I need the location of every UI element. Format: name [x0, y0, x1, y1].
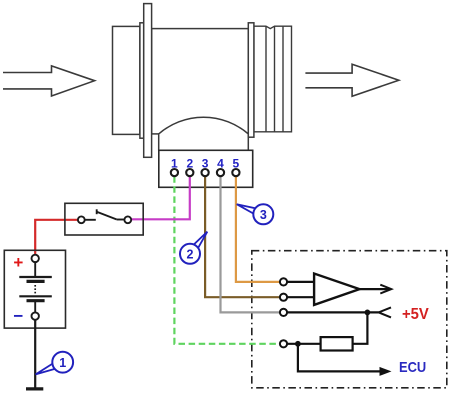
wire junction to ECU output — [298, 344, 388, 372]
pin label 3 — [202, 157, 209, 171]
pin label 2 — [186, 157, 193, 171]
wire resistor to T4 — [287, 343, 321, 345]
svg-text:+: + — [13, 253, 23, 272]
wire pin3 brown to ECU — [205, 176, 280, 297]
svg-text:1: 1 — [59, 356, 66, 370]
callout 1 pointer — [36, 364, 55, 375]
pin label 5 — [233, 157, 240, 171]
battery dotted link — [34, 285, 36, 294]
battery positive terminal — [32, 255, 39, 262]
+5V arrowhead — [379, 307, 391, 317]
airflow arrow right — [305, 64, 398, 96]
ECU terminal T4 — [280, 340, 287, 347]
connector pin 5 — [232, 169, 239, 176]
wire junction to resistor — [353, 312, 368, 343]
resistor R1 — [321, 337, 353, 350]
svg-text:−: − — [13, 307, 23, 326]
switch blade — [97, 209, 125, 219]
battery negative terminal — [32, 312, 39, 319]
ECU terminal T2 — [280, 294, 287, 301]
battery cell plate short 2 — [27, 299, 45, 302]
MAF sensor tall flange — [144, 4, 152, 158]
callout 3 circle — [253, 204, 273, 224]
airflow arrow left — [3, 66, 95, 96]
battery box — [4, 250, 65, 328]
MAF sensor ribbed tail section — [254, 26, 292, 132]
svg-text:3: 3 — [260, 208, 267, 222]
switch fixed lead — [85, 219, 96, 221]
ECU box dashed border — [252, 251, 447, 388]
wire pin2 magenta to switch — [131, 176, 189, 219]
MAF sensor left tube — [113, 26, 140, 134]
switch right contact — [124, 216, 131, 223]
svg-text:2: 2 — [187, 248, 194, 262]
MAF sensor right flange — [248, 23, 254, 137]
wire pin4 grey to ECU — [221, 176, 280, 312]
op-amp output arrowhead — [380, 285, 391, 294]
ECU terminal T3 — [280, 309, 287, 316]
wire pin1 green dashed to ECU — [174, 176, 280, 344]
MAF sensor main body — [152, 29, 249, 134]
node junction on T4 line — [295, 341, 301, 347]
node junction on +5V line — [365, 310, 371, 316]
callout 2 circle — [180, 244, 200, 264]
battery plus sign — [13, 253, 23, 272]
connector pin 4 — [217, 169, 224, 176]
wire T2 to op-amp — [287, 296, 314, 298]
connector pin 2 — [186, 169, 193, 176]
battery cell plate short 1 — [27, 280, 45, 283]
battery cell plate long 2 — [19, 295, 52, 297]
connector pin 1 — [171, 169, 178, 176]
svg-text:+5V: +5V — [402, 306, 429, 323]
ground — [26, 387, 43, 390]
op-amp output wire — [360, 288, 391, 290]
svg-text:ECU: ECU — [399, 359, 426, 376]
wire T1 to op-amp — [287, 281, 314, 283]
label ECU — [399, 359, 426, 376]
battery minus sign — [13, 307, 23, 326]
callout 3 pointer — [237, 204, 256, 213]
connector box — [159, 150, 253, 187]
battery cell plate long 1 — [19, 276, 52, 278]
switch left contact — [78, 216, 85, 223]
battery internal wiring — [34, 262, 36, 312]
callout 1 circle — [52, 352, 73, 373]
MAF sensor small flange — [140, 23, 144, 138]
ECU output arrowhead — [380, 367, 392, 376]
wire pin5 orange to ECU — [236, 176, 280, 282]
wire battery to switch red — [35, 220, 78, 255]
label +5V — [402, 306, 429, 323]
MAF sensor connector dome housing — [159, 117, 249, 150]
wire battery to ground — [34, 320, 36, 389]
pin label 4 — [217, 157, 224, 171]
op-amp U1 — [314, 274, 359, 305]
+5V supply wire — [287, 311, 379, 313]
connector pin 3 — [202, 169, 209, 176]
callout 2 pointer — [194, 232, 208, 248]
ECU terminal T1 — [280, 278, 287, 285]
pin label 1 — [171, 157, 178, 171]
switch box S1 — [65, 203, 143, 235]
